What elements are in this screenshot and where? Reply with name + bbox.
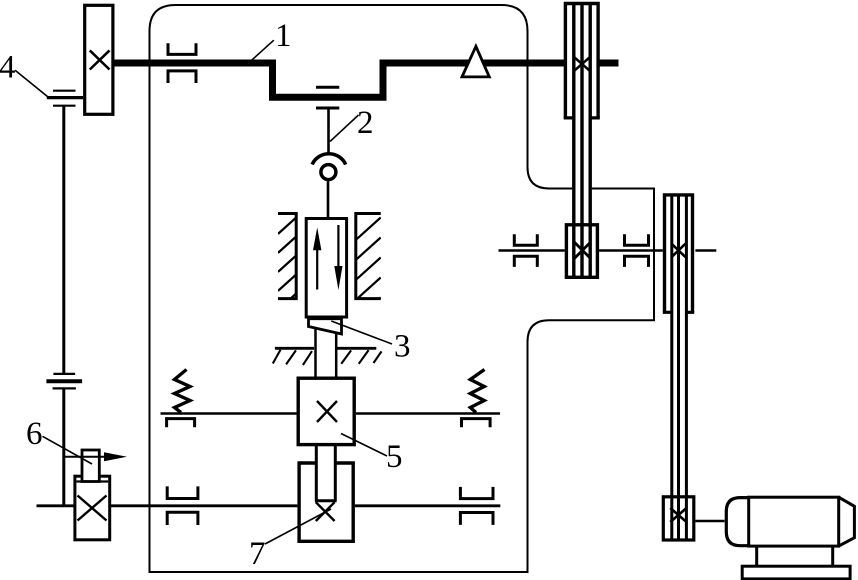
follower rod between 5 and 7 xyxy=(315,446,337,501)
cam block 7 with notch xyxy=(299,463,353,541)
motor shaft xyxy=(695,520,724,523)
table line xyxy=(275,347,376,350)
belt drive 2 top pulley xyxy=(665,195,693,312)
leader 4 xyxy=(15,70,48,97)
svg-text:5: 5 xyxy=(386,439,403,475)
bearing on shaft 1 xyxy=(168,43,196,83)
middle shaft xyxy=(499,249,717,252)
right guide block xyxy=(356,214,381,299)
svg-text:3: 3 xyxy=(394,329,411,365)
X in block 6 xyxy=(78,496,107,521)
operating rod (left column) xyxy=(62,106,65,506)
motor pedestal xyxy=(757,546,833,566)
X in block 7 xyxy=(316,502,335,521)
leader 2 xyxy=(330,115,359,142)
crank pin lines xyxy=(316,87,339,108)
belt drive 2 bottom pulley xyxy=(663,497,694,540)
camshaft 5 xyxy=(161,412,501,415)
down arrow in ram xyxy=(337,225,339,268)
middle shaft right bearing xyxy=(625,234,649,267)
leader 3 xyxy=(331,321,392,344)
svg-text:4: 4 xyxy=(0,50,16,86)
left guide block xyxy=(278,214,296,299)
crankshaft 1 (thick shaft with crank throw) xyxy=(114,63,619,97)
left spring bracket xyxy=(167,419,195,428)
X on belt1 top pulley xyxy=(574,57,590,71)
up arrow in ram xyxy=(316,242,318,290)
right spring bracket xyxy=(462,419,491,428)
frame gap where belt 1 crosses xyxy=(572,186,592,192)
leader 5 xyxy=(341,434,387,457)
mid-left link symbol xyxy=(53,374,76,389)
wedge punch 3 xyxy=(309,319,342,334)
ram slider xyxy=(306,219,346,318)
flywheel/clutch triangle on shaft 1 xyxy=(462,46,489,77)
X on belt2 top pulley xyxy=(671,244,685,258)
shifter arrow xyxy=(64,456,109,458)
punch rod through table xyxy=(316,328,337,376)
belt fork symbol 4 xyxy=(53,91,76,106)
left spring xyxy=(175,370,191,413)
svg-text:6: 6 xyxy=(26,416,43,452)
svg-text:2: 2 xyxy=(357,105,374,141)
bottom shaft right bearing xyxy=(460,487,493,525)
collar line in block 6 xyxy=(77,480,109,482)
clutch block 6 xyxy=(75,476,110,540)
X on belt1 bottom pulley xyxy=(574,242,591,259)
joint arc above circle xyxy=(312,154,346,165)
cam block 5 xyxy=(298,378,354,444)
X on belt2 bottom pulley xyxy=(670,508,686,522)
middle shaft left bearing xyxy=(514,234,537,267)
connecting rod upper link xyxy=(327,108,330,154)
top-left pulley block xyxy=(85,5,113,114)
machine frame outline xyxy=(150,5,655,572)
bottom shaft left bearing xyxy=(167,486,198,525)
right spring xyxy=(470,370,484,413)
X in top-left pulley xyxy=(90,50,110,69)
connecting rod lower link xyxy=(327,181,330,218)
right guide hatching xyxy=(356,218,381,340)
motor left cap xyxy=(726,498,749,546)
leader 7 xyxy=(265,509,331,544)
motor base plate xyxy=(742,566,850,579)
left guide hatching xyxy=(278,218,296,329)
shifter fork 6 xyxy=(82,450,99,482)
X in block 5 xyxy=(317,401,337,422)
belt 2 lines xyxy=(672,194,687,540)
table hatching xyxy=(273,350,382,365)
svg-text:7: 7 xyxy=(249,536,266,572)
motor body xyxy=(749,497,839,546)
belt drive 1 top pulley xyxy=(565,4,598,118)
belt 1 lines xyxy=(574,2,590,276)
leader 6 xyxy=(43,436,93,464)
svg-text:1: 1 xyxy=(275,18,292,54)
connecting rod 2 joint circle xyxy=(321,165,336,180)
bottom camshaft xyxy=(37,504,501,507)
motor right cap xyxy=(839,497,855,546)
leader 1 xyxy=(251,40,274,60)
belt drive 1 bottom pulley xyxy=(566,225,597,277)
